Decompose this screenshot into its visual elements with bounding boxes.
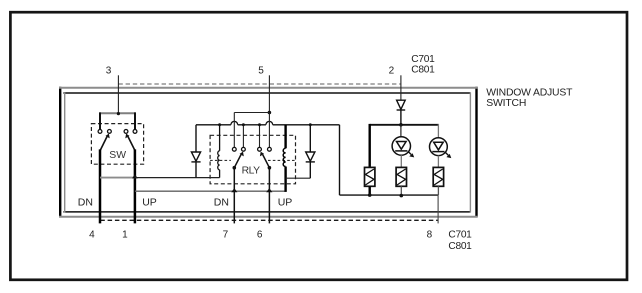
svg-text:5: 5 <box>258 65 264 76</box>
connector C701/C801 dashed line (top) <box>118 83 401 85</box>
svg-text:SWITCH: SWITCH <box>486 98 526 109</box>
wire rail to relay contact 3 <box>259 125 261 148</box>
resistor R3 <box>433 167 443 186</box>
diode CR2 (right) <box>306 125 315 178</box>
illumination feed rail (right section) <box>370 124 439 126</box>
node R2/return wire <box>400 194 404 198</box>
svg-text:2: 2 <box>389 65 395 76</box>
svg-text:RLY: RLY <box>242 165 261 176</box>
SW contact terminal 1 <box>98 130 102 134</box>
connection arrow on pin 7 wire <box>231 188 237 192</box>
diode CR1 (left) <box>191 125 200 178</box>
resistor R1 <box>365 167 375 186</box>
node rail/contact 2 <box>242 123 245 126</box>
wire feed to LED1 <box>400 125 402 137</box>
wire relay left armature to pin 7 <box>233 168 235 224</box>
connector C701/C801 dashed line (bottom) <box>100 219 438 221</box>
svg-text:C701: C701 <box>448 230 472 241</box>
svg-text:WINDOW ADJUST: WINDOW ADJUST <box>486 87 573 98</box>
relay mechanical link dashed line (right) <box>268 159 296 161</box>
wire bar to left contact <box>99 112 101 129</box>
relay contact terminal 4 <box>268 147 272 151</box>
SW right pole lever <box>125 134 134 150</box>
wire bar to right contact <box>134 112 136 129</box>
node rail/contact 3 <box>258 123 261 126</box>
wire pin 3 <box>117 75 119 113</box>
wire feed to resistor R1 (thick) <box>369 124 371 167</box>
node pin3/bar <box>117 112 120 115</box>
connection arrow on UP wire <box>132 174 138 178</box>
relay RLY dashed box <box>210 135 295 184</box>
svg-text:3: 3 <box>106 65 112 76</box>
relay feed rail (top horizontal) with hop-overs <box>196 121 340 124</box>
svg-text:UP: UP <box>142 196 157 208</box>
wire pin 2 <box>400 75 402 100</box>
svg-text:7: 7 <box>223 230 229 241</box>
relay contact terminal 2 <box>242 147 246 151</box>
wire R3 to return <box>437 186 439 195</box>
svg-text:SW: SW <box>109 150 126 161</box>
wire UP to left diode / relay coil <box>135 177 220 179</box>
svg-text:DN: DN <box>214 196 229 208</box>
SW contact terminal 4 <box>133 130 137 134</box>
wire feed to LED2 <box>437 124 439 138</box>
relay mechanical link dashed line (left) <box>210 159 231 161</box>
wire rail down to lamp return <box>339 125 341 195</box>
diode CR3 (on pin 2 wire) <box>397 100 406 125</box>
wire pin5 branch (horizontal) <box>234 112 269 114</box>
switch SW dashed box <box>91 124 143 165</box>
node: pin5 to relay branch <box>268 111 272 115</box>
wire SW left pole to pin 4 (DN, thick) <box>99 149 102 223</box>
LED2 <box>430 138 452 158</box>
node rail/right diode <box>309 123 312 126</box>
relay right armature <box>260 152 271 170</box>
SW contact terminal 2 <box>108 130 112 134</box>
svg-text:DN: DN <box>78 196 93 208</box>
relay contact terminal 1 <box>232 147 236 151</box>
wire pin 5 <box>268 75 270 112</box>
SW contact terminal 3 <box>124 130 128 134</box>
switch assembly outer box (gray top/bottom, black sides) <box>59 87 478 217</box>
mechanical link between poles (gray) <box>100 177 135 179</box>
switch assembly inner box (black top/bottom, gray sides) <box>63 93 470 213</box>
resistor R2 <box>396 167 406 186</box>
svg-text:UP: UP <box>278 196 293 208</box>
wire UP to relay common (lower horizontal) <box>135 190 286 192</box>
wire pin5 down to relay contact 4 <box>268 113 270 148</box>
svg-text:6: 6 <box>257 230 263 241</box>
relay coil L1 (left) <box>218 125 220 178</box>
node feed rail / pin 2 wire <box>399 123 403 127</box>
relay contact terminal 3 <box>258 147 262 151</box>
wire branch down to relay contact 1 <box>233 113 235 148</box>
wire right coil to right diode <box>286 177 311 179</box>
SW feed bar (from pin 3) <box>99 112 136 114</box>
wire return to pin 8 <box>437 195 439 223</box>
svg-text:C801: C801 <box>411 65 435 76</box>
svg-text:1: 1 <box>122 230 128 241</box>
svg-text:8: 8 <box>427 230 433 241</box>
svg-text:C701: C701 <box>411 54 435 65</box>
lamp return bottom wire <box>340 194 439 196</box>
wire relay right armature to pin 6 <box>268 168 270 224</box>
svg-text:C801: C801 <box>448 241 472 252</box>
LED1 <box>392 137 414 158</box>
relay coil L2 (right, thick wire) <box>283 125 285 192</box>
wire R1 to return (thick) <box>369 186 371 195</box>
svg-text:4: 4 <box>89 230 95 241</box>
relay left armature <box>233 152 244 170</box>
node rail/left coil <box>218 123 221 126</box>
SW left pole lever <box>100 134 109 150</box>
wire LED1 to resistor R2 <box>400 155 402 167</box>
wire LED2 to resistor R3 <box>437 156 439 168</box>
wire R2 to return <box>400 186 402 195</box>
wire SW right pole to pin 1 (UP, thick) <box>134 149 137 223</box>
wire rail to relay contact 2 <box>242 125 244 148</box>
node R1/return wire <box>368 193 372 197</box>
connection arrow on pin 6 wire <box>266 188 272 192</box>
